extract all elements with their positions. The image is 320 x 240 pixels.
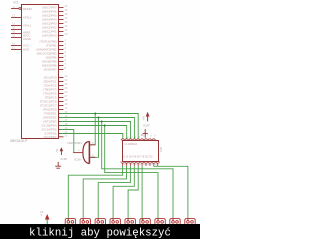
- junction dot on PD1 wire: [94, 113, 96, 115]
- connector X1: [65, 218, 75, 225]
- wire IC2 out1 to connector X1: [68, 166, 122, 221]
- wire long drop A to connector column 8: [102, 122, 173, 221]
- gate IC3A input stub 2: [90, 156, 95, 158]
- black caption bar: [0, 224, 200, 239]
- wire IC2 out5 to connector X5: [128, 166, 138, 221]
- svg-text:XTAL2: XTAL2: [23, 16, 32, 20]
- IC1 right pin names: [36, 6, 57, 139]
- connector X6: [140, 218, 150, 225]
- pin 30 AVCC stub: [11, 33, 21, 35]
- IC1 right pin stubs PD0-PD7: [59, 110, 64, 137]
- junction dot on PD2 wire: [98, 117, 100, 119]
- svg-text:IC2P: IC2P: [143, 123, 150, 127]
- wire net PD2 to IC2 pin4: [60, 118, 134, 140]
- wire long drop B to connector column 7: [105, 126, 158, 221]
- IC1 left pin names: [23, 7, 33, 52]
- svg-text:ULN2803A: ULN2803A: [125, 142, 138, 146]
- connector X2: [80, 218, 90, 225]
- svg-text:IC3P: IC3P: [61, 157, 68, 161]
- connector X9: [185, 218, 195, 225]
- pin 31 AGND stub: [11, 37, 21, 39]
- pin 10 VCC stub: [11, 45, 21, 47]
- pin 13 XTAL1 stub: [11, 25, 21, 27]
- wire net PD6 to IC2 pin1: [60, 134, 123, 140]
- wire IC2 out2 to connector X2: [83, 166, 126, 221]
- IC1 right pin stubs PA0-PA7: [59, 8, 64, 36]
- pin 11 GND stub: [11, 49, 21, 51]
- wire net PD1 to IC2 pin5: [60, 114, 138, 140]
- wire IC2 out4 to connector X4: [113, 166, 134, 221]
- IC2 bottom pin numbers: [123, 163, 158, 166]
- wire IC2 out8 to connector X9: [154, 166, 188, 221]
- svg-text:I1 I2 I3 I4 I5 I6 I7 I8 GD CD: I1 I2 I3 I4 I5 I6 I7 I8 GD CD: [124, 156, 153, 159]
- svg-text:GND: GND: [23, 48, 29, 52]
- IC2 ULN2803 body: [123, 141, 159, 162]
- IC1 ATmega16 body: [22, 5, 59, 139]
- gate IC3A output stub: [73, 152, 83, 154]
- IC1 right pin numbers: [65, 4, 68, 137]
- pin 9 RESET stub: [11, 8, 19, 10]
- junction dot on PD3 wire: [101, 121, 103, 123]
- svg-text:XTAL1: XTAL1: [23, 24, 32, 28]
- IC1 left pin stubs: [11, 8, 21, 50]
- svg-text:(ADC0)PA0: (ADC0)PA0: [42, 34, 57, 38]
- junction dot on PD4 wire: [104, 125, 106, 127]
- svg-text:V: V: [41, 213, 43, 217]
- pin 32 AREF stub: [11, 29, 21, 31]
- wire net PD5 to gate IC3A output: [60, 130, 74, 153]
- IC2 top pin numbers: [123, 134, 156, 139]
- connector X4: [110, 218, 120, 225]
- connector X3: [95, 218, 105, 225]
- gate IC3A body: [83, 141, 90, 163]
- IC2 bottom pin arcs and stubs: [121, 162, 159, 167]
- wire net PD4 to IC2 pin2: [60, 126, 127, 140]
- gate IC3A input stub 1: [90, 144, 95, 146]
- svg-text:RESET: RESET: [23, 7, 33, 11]
- IC2P ground: [141, 129, 148, 138]
- svg-text:IC1: IC1: [14, 1, 19, 5]
- IC2 top pin arcs: [121, 139, 155, 141]
- svg-text:IC2: IC2: [159, 147, 163, 152]
- svg-text:IC3A: IC3A: [74, 158, 81, 162]
- supply arrow +5V: [40, 210, 49, 225]
- RESET inversion bubble: [19, 8, 21, 10]
- IC1 left pin numbers: [12, 5, 15, 50]
- connector X7: [155, 218, 165, 225]
- svg-text:74HC259N: 74HC259N: [67, 141, 82, 145]
- IC1 right pin stubs PC0-PC7: [59, 78, 64, 106]
- pin 12 XTAL2 stub: [11, 17, 21, 19]
- svg-text:(OC2)PD7: (OC2)PD7: [43, 135, 56, 139]
- svg-text:(SCK)PB7: (SCK)PB7: [44, 68, 57, 72]
- svg-text:AGND: AGND: [23, 37, 31, 41]
- IC1 right pin stubs PB0-PB7: [59, 42, 64, 70]
- wire IC2 out6 to connector X6: [141, 166, 144, 221]
- svg-text:+5V: +5V: [143, 116, 146, 121]
- IC2P VCC arrow: [143, 112, 150, 121]
- op-amp U1 placeholder group replaced below: [10, 1, 58, 144]
- svg-text:MEGA16-P: MEGA16-P: [10, 139, 28, 143]
- connector X8: [170, 218, 180, 225]
- wire branch to gate input 1: [91, 114, 96, 145]
- connector X5: [125, 218, 135, 225]
- svg-text:+5V: +5V: [56, 148, 59, 153]
- wire net PD3 to IC2 pin3: [60, 122, 131, 140]
- IC3P ground: [55, 162, 61, 168]
- wire branch to gate input 2: [91, 118, 99, 158]
- wire IC2 out3 to connector X3: [98, 166, 130, 221]
- svg-text:kliknij aby powiększyć: kliknij aby powiększyć: [29, 227, 171, 239]
- IC3P VCC arrow: [60, 148, 63, 155]
